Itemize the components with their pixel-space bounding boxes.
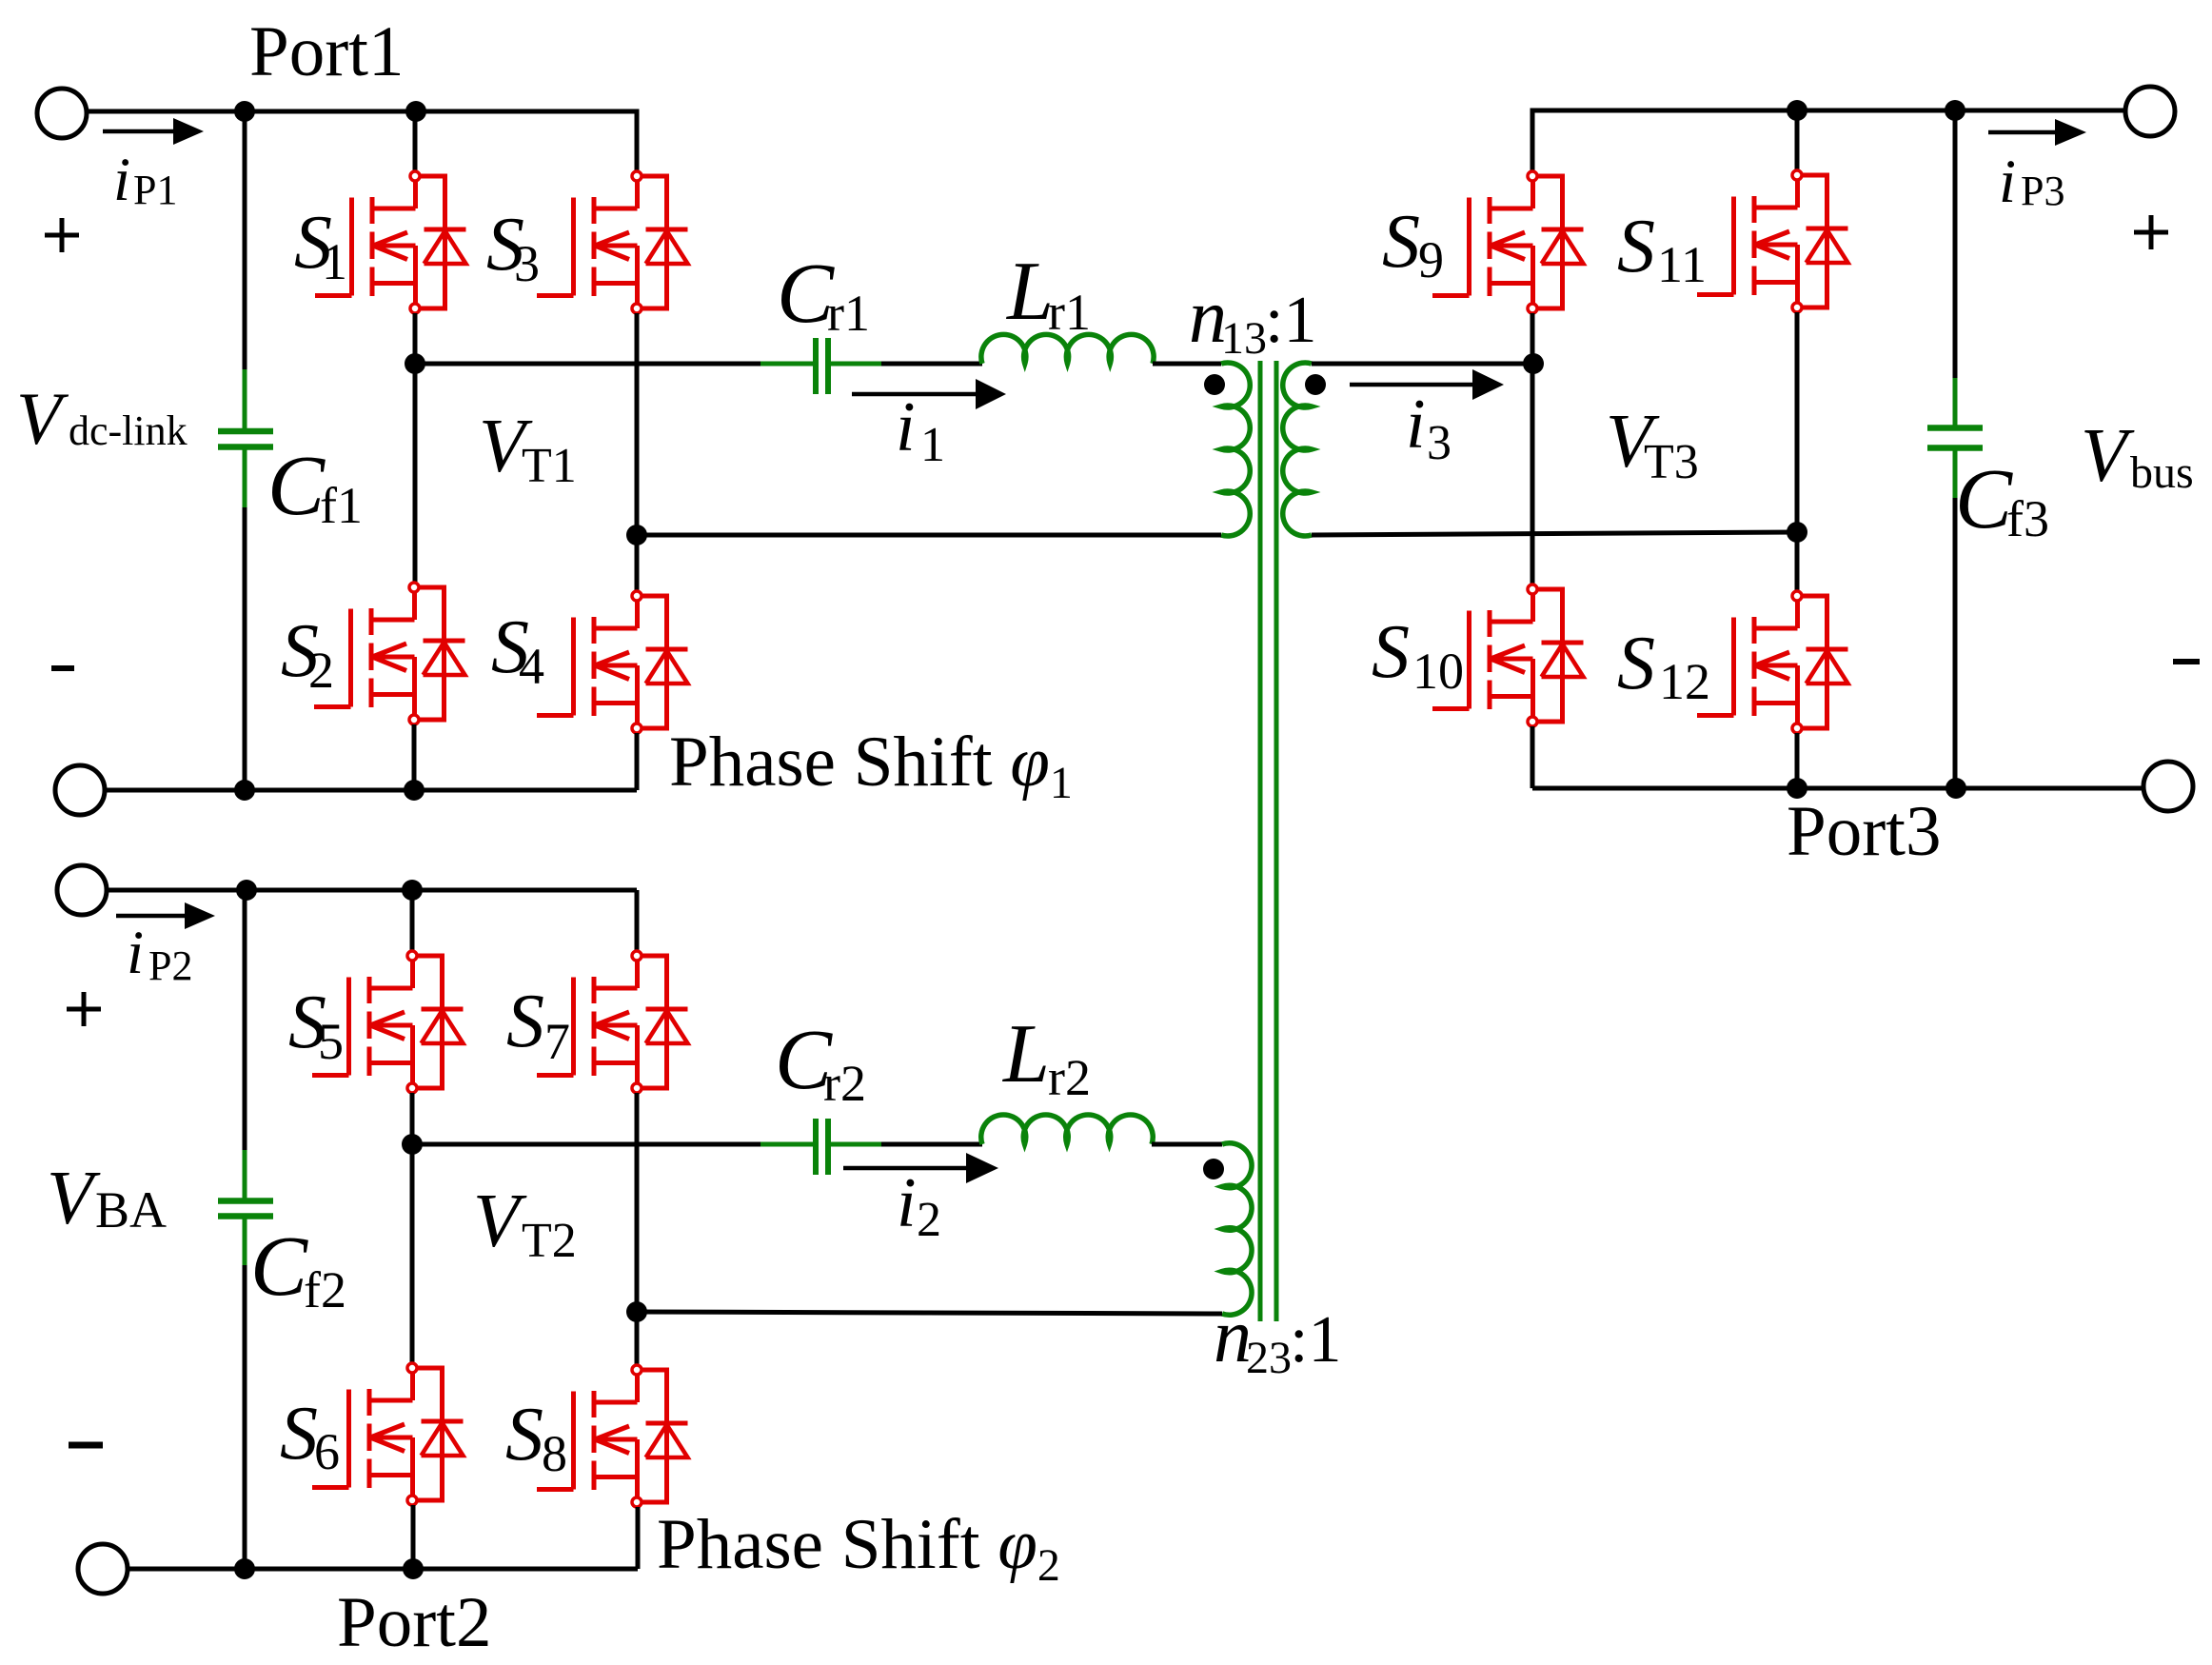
node: bridge1 midpoint B [626, 525, 647, 545]
transformer secondary winding (port3 side) [1283, 363, 1312, 536]
node: top rail2 - S5 drain [402, 880, 423, 901]
wire: midpoint B2 to primary 2 bottom [637, 1312, 1222, 1314]
svg-text:T3: T3 [1644, 435, 1699, 489]
node: top rail3 - Cf3 [1945, 100, 1965, 121]
label Lr1 [1005, 246, 1091, 341]
svg-text:r1: r1 [1048, 284, 1091, 341]
svg-text:9: 9 [1418, 231, 1444, 288]
transformer primary winding 2 (n23) [1222, 1143, 1252, 1316]
wire: Port3 top rail [1532, 110, 2125, 171]
svg-text:13: 13 [1221, 313, 1267, 364]
wire: Cr2 to Lr2 [881, 1142, 982, 1147]
wire: midpoint B2 to S8 drain [635, 1312, 640, 1365]
transistor S6 (N-MOSFET with body diode) [312, 1363, 464, 1505]
wire: Port1 top rail [87, 111, 637, 171]
svg-text:S: S [505, 1393, 543, 1477]
transistor S12 (N-MOSFET with body diode) [1697, 591, 1848, 733]
label Cf1 [267, 439, 363, 534]
svg-text:10: 10 [1412, 643, 1464, 700]
wire: S10 source to bottom rail [1531, 726, 1535, 788]
svg-text:i: i [1999, 148, 2016, 216]
wire: S12 source to bottom rail [1795, 733, 1800, 788]
wire: S2 source to bottom rail [412, 724, 417, 790]
label S4 [491, 605, 544, 695]
transistor S7 (N-MOSFET with body diode) [537, 951, 688, 1093]
label VT1 [479, 405, 577, 493]
svg-text:1: 1 [920, 418, 945, 472]
transformer T primary winding 1 (n13) [1221, 363, 1250, 536]
current arrow i2 [843, 1153, 998, 1183]
current arrow i3 [1350, 369, 1504, 400]
label Cr1 [777, 247, 870, 342]
label S11 [1617, 205, 1707, 293]
label i1 [896, 388, 945, 472]
wire: S4 source to bottom rail [635, 733, 640, 790]
inductor Lr2 [981, 1115, 1154, 1144]
wire: Port2 bottom rail [128, 1567, 638, 1572]
svg-text:P3: P3 [2021, 168, 2064, 214]
transistor S5 (N-MOSFET with body diode) [312, 951, 464, 1093]
label iP1 [113, 146, 177, 214]
node: bridge1 midpoint A [405, 353, 425, 374]
label minus sign Port3 [2173, 659, 2200, 664]
wire: Port3 bottom rail [1532, 786, 2143, 791]
svg-text:i: i [897, 1164, 917, 1242]
capacitor Cf2 [218, 1150, 273, 1265]
label S9 [1382, 200, 1444, 288]
node: top rail - Cf1 tap [234, 101, 255, 122]
node: bottom rail3 - Cf3 [1945, 778, 1966, 799]
Port1 negative terminal [55, 765, 105, 815]
label minus sign Port1 [51, 665, 74, 671]
wire: midpoint B3 to S12 drain [1795, 532, 1800, 591]
svg-text:f2: f2 [304, 1261, 346, 1318]
label Cf2 [250, 1219, 346, 1318]
wire: Cr1 to Lr1 [881, 362, 982, 367]
wire: S8 source to bottom rail [636, 1507, 641, 1569]
label minus sign Port2 [69, 1442, 103, 1449]
label plus sign Port2 [67, 992, 101, 1026]
capacitor Cr1 [760, 338, 881, 394]
label S2 [281, 609, 334, 699]
wire: Cf3 bottom lead [1953, 498, 1958, 788]
svg-text:S: S [506, 980, 544, 1063]
svg-text:Phase Shift φ2: Phase Shift φ2 [657, 1505, 1060, 1591]
wire: midpoint B1 to S4 drain [635, 535, 640, 591]
label i3 [1406, 386, 1452, 470]
wire: S11 source to midpoint B3 [1795, 312, 1800, 532]
svg-text:P1: P1 [133, 167, 177, 213]
node: bottom rail3 - S12 [1787, 778, 1807, 799]
svg-text:2: 2 [917, 1193, 941, 1247]
svg-text:S: S [1382, 200, 1420, 284]
label VT3 [1606, 400, 1699, 489]
label S3 [486, 203, 540, 292]
svg-text:V: V [473, 1179, 527, 1263]
node: bridge2 midpoint B [626, 1301, 647, 1322]
wire: S1 drain leg [413, 111, 418, 171]
polarity dot winding 2 [1203, 1159, 1224, 1179]
label S8 [505, 1393, 567, 1482]
svg-text:C: C [1955, 452, 2013, 546]
wire: S9 source to midpoint A3 [1531, 313, 1535, 364]
label Vdc-link [16, 377, 188, 460]
svg-text:V: V [16, 377, 69, 460]
svg-text:4: 4 [519, 638, 544, 695]
label S7 [506, 980, 570, 1070]
node: bottom rail - S2 source [404, 780, 425, 801]
label plus sign Port3 [2134, 215, 2168, 249]
node: top rail - S1 drain tap [405, 101, 426, 122]
wire: S3 source to midpoint B1 [635, 313, 640, 535]
svg-text:r1: r1 [827, 285, 870, 342]
transformer core [1260, 361, 1276, 1321]
current arrow iP3 [1988, 119, 2086, 146]
polarity dot winding 1 [1204, 374, 1225, 395]
wire: Cf1 bottom lead (black) [243, 507, 247, 790]
svg-text:P2: P2 [148, 942, 192, 989]
wire: Lr1 to transformer primary 1 [1153, 362, 1221, 367]
label VBA [47, 1157, 167, 1240]
label Cr2 [775, 1013, 866, 1112]
svg-text:BA: BA [95, 1181, 167, 1239]
transistor S2 (N-MOSFET with body diode) [314, 583, 465, 724]
wire: Port1 bottom rail [105, 788, 637, 793]
current arrow iP1 [103, 118, 204, 145]
wire: Cf2 top lead [243, 890, 247, 1150]
wire: Cf3 top lead [1953, 110, 1958, 378]
node: bottom rail - Cf1 [234, 780, 255, 801]
wire: midpoint A3 to S10 drain [1531, 364, 1535, 585]
wire: secondary top to bridge3 [1312, 362, 1533, 367]
node: bridge3 midpoint A [1523, 353, 1544, 374]
svg-text:11: 11 [1657, 236, 1707, 293]
svg-text:Port1: Port1 [249, 12, 405, 91]
label Lr2 [1001, 1008, 1091, 1106]
wire: S7 source to midpoint B2 [635, 1093, 640, 1312]
label i2 [897, 1164, 941, 1247]
transistor S11 (N-MOSFET with body diode) [1697, 170, 1848, 312]
wire: Cf2 bottom lead [243, 1265, 247, 1569]
wire: Lr2 to transformer primary 2 [1152, 1142, 1222, 1147]
svg-text:dc-link: dc-link [69, 407, 188, 454]
current arrow iP2 [116, 902, 215, 929]
Port3 positive terminal [2125, 87, 2175, 136]
node: top rail3 - S11 drain [1787, 100, 1807, 121]
node: bottom rail2 - Cf2 [234, 1558, 255, 1579]
svg-text:8: 8 [542, 1425, 567, 1482]
svg-text:3: 3 [514, 235, 540, 292]
svg-text:2: 2 [308, 642, 334, 699]
label S6 [280, 1392, 340, 1480]
capacitor Cf3 [1927, 378, 1983, 498]
current arrow i1 [852, 379, 1006, 409]
wire: midpoint A1 to Cr1 [415, 362, 760, 367]
svg-text:V: V [47, 1157, 101, 1240]
wire: S5 source to midpoint A2 [410, 1093, 415, 1144]
svg-text:1: 1 [322, 233, 347, 290]
svg-text:23: 23 [1246, 1333, 1292, 1383]
svg-text:L: L [1005, 246, 1054, 338]
label VT2 [473, 1179, 577, 1268]
svg-text:12: 12 [1659, 653, 1710, 710]
svg-text:S: S [1617, 205, 1655, 288]
svg-text:C: C [777, 247, 835, 341]
label n13 ratio [1189, 275, 1316, 364]
wire: midpoint B1 to primary 1 bottom [637, 533, 1221, 538]
svg-text:S: S [1617, 622, 1655, 705]
transistor S10 (N-MOSFET with body diode) [1432, 585, 1584, 726]
label n23 ratio [1214, 1295, 1341, 1383]
transistor S3 (N-MOSFET with body diode) [537, 171, 688, 313]
capacitor Cf1 [218, 369, 273, 507]
label S12 [1617, 622, 1710, 710]
label Cf3 [1955, 452, 2049, 547]
label S5 [288, 981, 344, 1070]
svg-text:7: 7 [544, 1013, 570, 1070]
label Vbus [2081, 414, 2194, 498]
wire: S11 drain leg [1795, 110, 1800, 170]
svg-text:i: i [896, 388, 916, 466]
svg-text:f1: f1 [320, 477, 363, 534]
svg-text::1: :1 [1265, 284, 1316, 357]
svg-text:5: 5 [318, 1013, 344, 1070]
wire: S5 drain leg [410, 890, 415, 951]
transistor S8 (N-MOSFET with body diode) [537, 1365, 688, 1507]
transistor S1 (N-MOSFET with body diode) [315, 171, 466, 313]
svg-text:r2: r2 [823, 1055, 866, 1112]
label plus sign Port1 [45, 218, 79, 252]
svg-text:Port2: Port2 [337, 1583, 492, 1662]
node: bridge2 midpoint A [402, 1134, 423, 1155]
capacitor Cr2 [760, 1119, 881, 1175]
svg-text:i: i [113, 146, 130, 214]
svg-text:S: S [1372, 610, 1410, 694]
transistor S9 (N-MOSFET with body diode) [1432, 171, 1584, 313]
Port2 positive terminal [57, 865, 107, 915]
label iP2 [127, 919, 192, 989]
svg-text:f3: f3 [2006, 490, 2049, 547]
svg-text:Port3: Port3 [1787, 792, 1942, 871]
node: bottom rail2 - S6 [403, 1558, 424, 1579]
Port1 positive terminal [37, 89, 87, 138]
label iP3 [1999, 148, 2064, 216]
svg-text:Phase Shift φ1: Phase Shift φ1 [669, 723, 1073, 808]
wire: S1 source to midpoint A1 [413, 313, 418, 364]
Port2 negative terminal [78, 1544, 128, 1594]
svg-text:T2: T2 [522, 1214, 577, 1268]
svg-text:S: S [280, 1392, 318, 1476]
svg-text:V: V [2081, 414, 2135, 498]
svg-text:T1: T1 [522, 439, 577, 493]
wire: secondary bottom to bridge3 [1312, 532, 1797, 535]
wire: Port2 top rail [107, 888, 637, 893]
polarity dot secondary winding [1305, 374, 1326, 395]
svg-text:3: 3 [1427, 416, 1452, 470]
transistor S4 (N-MOSFET with body diode) [537, 591, 688, 733]
wire: S6 source to bottom rail [411, 1505, 416, 1569]
wire: midpoint A1 to S2 drain [413, 364, 418, 583]
label S10 [1372, 610, 1464, 700]
svg-text:r2: r2 [1048, 1049, 1091, 1106]
svg-text:C: C [267, 439, 326, 533]
svg-text:L: L [1001, 1008, 1050, 1100]
wire: midpoint A2 to S6 drain [410, 1144, 415, 1363]
Port3 negative terminal [2143, 762, 2193, 811]
svg-text:i: i [1406, 386, 1426, 464]
svg-text:bus: bus [2130, 447, 2194, 498]
wire: Cf1 top lead (black) [243, 111, 247, 369]
svg-text:6: 6 [314, 1423, 340, 1480]
inductor Lr1 [981, 334, 1154, 364]
label S1 [294, 201, 347, 290]
wire: midpoint A2 to Cr2 [412, 1142, 760, 1147]
wire: S7 drain leg [635, 890, 640, 951]
node: bridge3 midpoint B [1787, 522, 1807, 543]
svg-text::1: :1 [1290, 1303, 1341, 1377]
node: top rail2 - Cf2 [236, 880, 257, 901]
svg-text:C: C [250, 1219, 308, 1314]
svg-text:i: i [127, 919, 144, 987]
